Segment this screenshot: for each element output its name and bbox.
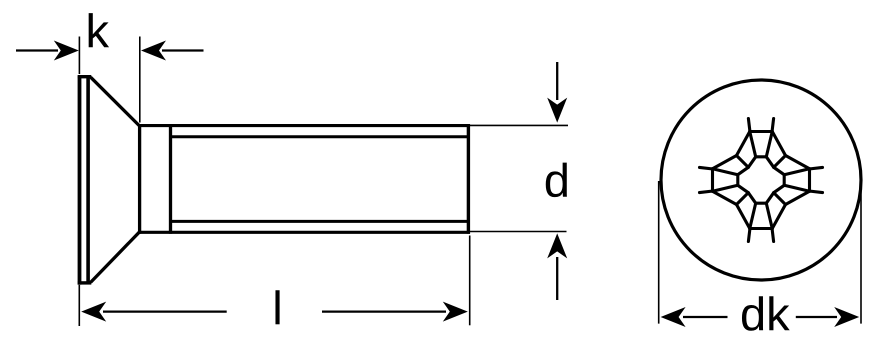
recess arm left — [700, 156, 738, 205]
dimension k right arrowhead — [141, 41, 166, 61]
recess arm right — [784, 156, 822, 205]
shank bottom outline — [138, 231, 470, 234]
countersunk cone upper slant — [91, 77, 140, 126]
label l — [275, 290, 279, 324]
countersunk cone lower slant — [91, 232, 140, 283]
shank end line — [467, 124, 470, 234]
screw head bottom edge — [78, 281, 92, 284]
head outline circle (top view) — [661, 80, 861, 280]
label k — [89, 13, 109, 47]
dimension dk left arrow shaft — [683, 316, 728, 318]
phillips cross recess (top view) — [700, 119, 823, 242]
screw head flat face inner line — [86, 76, 90, 284]
recess arm down — [737, 203, 786, 241]
dimension k right arrow shaft — [162, 49, 204, 51]
dimension dk right arrow shaft — [796, 316, 837, 318]
dimension l right extension line — [469, 236, 471, 326]
thread minor diameter top line — [171, 135, 468, 138]
label dk — [742, 296, 790, 331]
dimension d bottom arrowhead — [547, 233, 567, 258]
cone-shank junction line — [138, 124, 141, 234]
dimension dk left extension line — [658, 181, 660, 324]
thread minor diameter bottom line — [171, 220, 468, 223]
label d — [546, 163, 567, 198]
dimension l left arrowhead — [81, 302, 106, 322]
recess flank lower-right — [766, 185, 785, 204]
dimension d bottom extension line — [470, 231, 567, 233]
dimension k right extension line — [139, 37, 141, 123]
shank top outline — [138, 124, 470, 127]
screw head top edge — [78, 75, 92, 78]
dimension k left extension line — [78, 37, 80, 75]
dimension d bottom arrow shaft — [556, 257, 558, 300]
screw head flat face outer line (side view) — [78, 75, 82, 284]
dimension l right arrowhead — [443, 302, 468, 322]
dimension k left arrow shaft — [16, 49, 58, 51]
recess arm up — [737, 119, 786, 157]
recess flank lower-left — [737, 185, 756, 204]
recess flank upper-left — [737, 156, 756, 175]
thread start line — [169, 124, 172, 234]
dimension k left arrowhead — [54, 41, 79, 61]
dimension dk right arrowhead — [834, 307, 859, 327]
dimension d top extension line — [470, 124, 568, 126]
dimension l left extension line — [78, 285, 80, 326]
dimension d top arrow shaft — [556, 62, 558, 100]
dimension d top arrowhead — [547, 98, 567, 123]
dimension dk left arrowhead — [661, 307, 686, 327]
dimension l right arrow shaft — [322, 310, 446, 312]
dimension dk right extension line — [860, 181, 862, 324]
recess flank upper-right — [766, 156, 785, 175]
dimension l left arrow shaft — [103, 310, 227, 312]
